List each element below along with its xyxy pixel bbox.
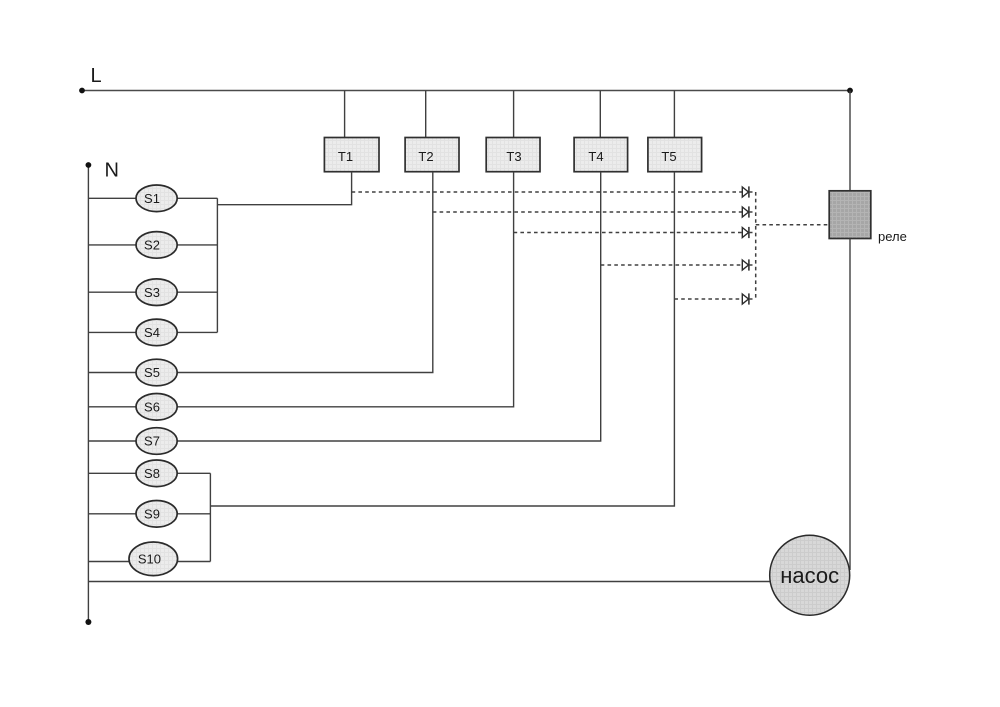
wire T5 feed from L (673, 91, 675, 138)
sensor S4 (136, 319, 177, 346)
svg-text:S4: S4 (144, 325, 160, 340)
wire S1 row left (88, 197, 136, 199)
svg-text:S2: S2 (144, 238, 160, 253)
svg-text:S3: S3 (144, 285, 160, 300)
label реле (878, 229, 907, 244)
wire S8 row right (177, 472, 210, 474)
label L (91, 65, 102, 87)
svg-text:T2: T2 (418, 149, 433, 164)
svg-text:S9: S9 (144, 506, 160, 521)
svg-text:T1: T1 (338, 149, 353, 164)
wire T5 output drop (210, 172, 674, 506)
wire S3 row left (88, 291, 136, 293)
wire S3 row right (177, 291, 217, 293)
svg-text:реле: реле (878, 229, 907, 244)
wire dashed T5 to diode D5 (674, 298, 742, 300)
node N terminal dot bottom (85, 619, 91, 625)
wire T1 output drop (217, 172, 351, 205)
wire S2 row left (88, 244, 136, 246)
wire dashed diode bus (755, 192, 757, 299)
wire dashed bus to relay coil (756, 224, 830, 226)
sensor S1 (136, 185, 177, 212)
wire S8-S10 group bus (209, 473, 211, 561)
wire S1 row right (177, 197, 217, 199)
wire L bus (top horizontal rail) (82, 90, 850, 92)
svg-text:S6: S6 (144, 399, 160, 414)
svg-text:L: L (91, 65, 102, 87)
svg-text:S10: S10 (138, 551, 161, 566)
diode D4 (742, 259, 755, 270)
wire S10 row right (178, 561, 211, 563)
svg-text:S5: S5 (144, 365, 160, 380)
node L terminal dot (79, 88, 85, 94)
sensor S5 (136, 359, 177, 386)
wire S6 row left (88, 406, 136, 408)
sensor S3 (136, 279, 177, 306)
wire S4 row right (177, 331, 217, 333)
svg-text:N: N (105, 159, 119, 181)
timer T3 (486, 138, 540, 172)
pump motor насос (770, 535, 850, 615)
label N (105, 159, 119, 181)
svg-text:S8: S8 (144, 466, 160, 481)
sensor S10 (129, 542, 178, 576)
wire L rail down to relay (849, 91, 851, 191)
svg-text:насос: насос (780, 563, 839, 588)
wire T2 feed from L (425, 91, 427, 138)
wire S1-S4 group bus (216, 198, 218, 332)
wire S8 row left (88, 472, 136, 474)
wire S7 row left (88, 440, 136, 442)
wire T4 feed from L (599, 91, 601, 138)
wire T3 feed from L (513, 91, 515, 138)
wire N bus (left vertical rail) (87, 165, 89, 622)
wire dashed T2 to diode D2 (433, 211, 743, 213)
wire S9 row left (88, 513, 136, 515)
diode D2 (742, 206, 755, 217)
wire dashed T4 to diode D4 (601, 264, 743, 266)
timer T1 (324, 138, 379, 172)
wire dashed T1 to diode D1 (352, 191, 743, 193)
wire T3 output drop (177, 172, 513, 407)
wire S5 row left (88, 372, 136, 374)
diode D3 (742, 227, 755, 238)
wire T4 output drop (177, 172, 601, 441)
timer T2 (405, 138, 459, 172)
relay K1 (829, 191, 871, 239)
wire T1 feed from L (344, 91, 346, 138)
wire bottom rail to pump (88, 581, 775, 583)
diode D5 (742, 293, 755, 304)
wire dashed T3 to diode D3 (514, 232, 743, 234)
svg-text:T5: T5 (661, 149, 676, 164)
timer T5 (648, 138, 702, 172)
timer T4 (574, 138, 628, 172)
sensor S9 (136, 501, 177, 528)
sensor S7 (136, 428, 177, 455)
svg-text:T3: T3 (506, 149, 521, 164)
wire T2 output drop (177, 172, 433, 373)
wire S10 row left (88, 561, 129, 563)
svg-text:S1: S1 (144, 191, 160, 206)
wire S9 row right (177, 513, 210, 515)
diode D1 (742, 186, 755, 197)
wire relay to pump (849, 239, 851, 571)
node junction top-right (847, 88, 853, 94)
sensor S2 (136, 232, 177, 259)
wire S2 row right (177, 244, 217, 246)
node N terminal dot top (86, 162, 92, 168)
sensor S8 (136, 460, 177, 487)
svg-text:S7: S7 (144, 434, 160, 449)
wire S4 row left (88, 331, 136, 333)
sensor S6 (136, 394, 177, 421)
svg-text:T4: T4 (588, 149, 603, 164)
